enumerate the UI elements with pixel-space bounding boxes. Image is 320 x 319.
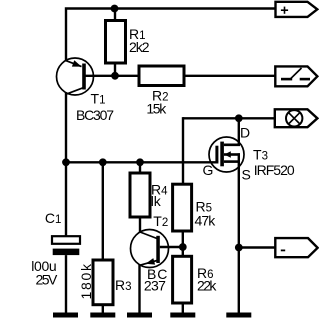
svg-text:237: 237: [144, 277, 166, 293]
svg-text:lk: lk: [151, 193, 162, 209]
wire lamp rail corner down to R5: [182, 117, 184, 185]
node junction R1 bottom / base wire: [111, 72, 119, 80]
ground bar under T3 source: [226, 313, 251, 318]
transistor T2 collector diagonal: [140, 232, 157, 239]
capacitor C1 top plate: [52, 236, 80, 244]
wire R6 bottom lead: [182, 303, 184, 314]
wire R1 top lead: [114, 9, 116, 22]
node junction left rail / gate rail: [62, 158, 70, 166]
resistor R6: [173, 256, 192, 303]
svg-text:BC307: BC307: [76, 107, 114, 123]
wire T1 base to R2: [86, 75, 141, 77]
transistor T2 emitter arrow (NPN): [146, 258, 156, 265]
node junction top rail / R1: [111, 5, 119, 13]
wire T3 drain up to lamp rail: [238, 118, 240, 146]
resistor R4: [130, 173, 150, 217]
mosfet T3 channel bar: [220, 142, 224, 167]
wire gate rail horizontal: [66, 161, 218, 163]
ground bar under C1: [53, 313, 78, 318]
connector plus terminal: [276, 2, 318, 17]
svg-text:IRF520: IRF520: [254, 162, 295, 178]
switch symbol lever: [291, 68, 302, 79]
ground bar under T2: [127, 313, 152, 318]
transistor T2 base bar: [156, 236, 160, 263]
mosfet T3 body circle: [209, 137, 244, 172]
connector minus terminal: [275, 238, 317, 257]
transistor T2 emitter diagonal: [140, 261, 157, 266]
resistor R5: [173, 184, 192, 231]
transistor T1 collector diagonal: [66, 88, 83, 95]
wire T2 emitter to ground: [138, 265, 140, 314]
svg-text:22k: 22k: [197, 277, 217, 293]
node junction R5/R6/T2 base: [179, 243, 187, 251]
resistor R2: [139, 66, 184, 86]
connector switch terminal: [275, 66, 317, 86]
ground bar under R3: [90, 313, 115, 318]
svg-text:S: S: [242, 167, 251, 183]
svg-text:180k: 180k: [78, 263, 94, 300]
node junction gate rail / R3: [99, 158, 107, 166]
wire R2 to switch connector: [184, 75, 277, 77]
switch symbol left contact: [281, 78, 292, 81]
plus sign: [281, 7, 288, 14]
minus sign: [281, 249, 285, 251]
wire R5 bottom lead: [182, 231, 184, 256]
ground bar under R6: [170, 313, 195, 318]
svg-text:D: D: [240, 125, 250, 141]
wire T1 collector down left rail: [65, 92, 67, 236]
wire T2 base to divider node: [160, 246, 183, 248]
mosfet T3 source segment: [224, 160, 240, 163]
node junction lamp rail / T3 drain: [235, 114, 243, 122]
mosfet T3 substrate segment: [224, 153, 240, 156]
wire source to minus connector: [239, 246, 277, 248]
wire C1 bottom to ground: [65, 255, 67, 313]
wire R4 bottom lead to T2 collector: [139, 217, 141, 233]
wire R1 bottom lead: [114, 63, 116, 76]
svg-text:2k2: 2k2: [129, 39, 150, 55]
resistor R1: [106, 21, 126, 64]
transistor T1 base bar: [82, 64, 86, 90]
transistor T1 emitter arrow (PNP): [72, 60, 82, 66]
wire R3 bottom lead: [102, 305, 104, 314]
resistor R3: [93, 260, 113, 305]
lamp symbol circle: [286, 110, 302, 126]
switch symbol right contact: [300, 78, 310, 81]
wire R3 top lead: [102, 162, 104, 261]
node junction gate rail / R4: [136, 158, 144, 166]
transistor T1 emitter diagonal: [66, 61, 82, 67]
wire lamp rail horizontal: [183, 117, 277, 119]
svg-text:47k: 47k: [195, 212, 217, 228]
svg-text:15k: 15k: [146, 101, 167, 117]
svg-text:25V: 25V: [36, 272, 58, 288]
mosfet T3 drain segment: [224, 144, 240, 147]
connector lamp terminal: [275, 109, 318, 127]
wire T3 source down to ground: [238, 153, 240, 313]
capacitor C1 bottom plate: [53, 249, 80, 256]
wire R4 top lead: [139, 162, 141, 174]
transistor T2 body circle: [131, 230, 169, 268]
transistor T1 body circle: [57, 58, 94, 95]
node junction source wire / minus connector: [235, 244, 243, 252]
svg-text:G: G: [203, 162, 214, 178]
mosfet T3 substrate arrow: [224, 151, 231, 157]
mosfet T3 gate bar: [215, 146, 218, 162]
wire top supply rail: [66, 9, 277, 61]
lamp symbol cross: [289, 113, 300, 124]
